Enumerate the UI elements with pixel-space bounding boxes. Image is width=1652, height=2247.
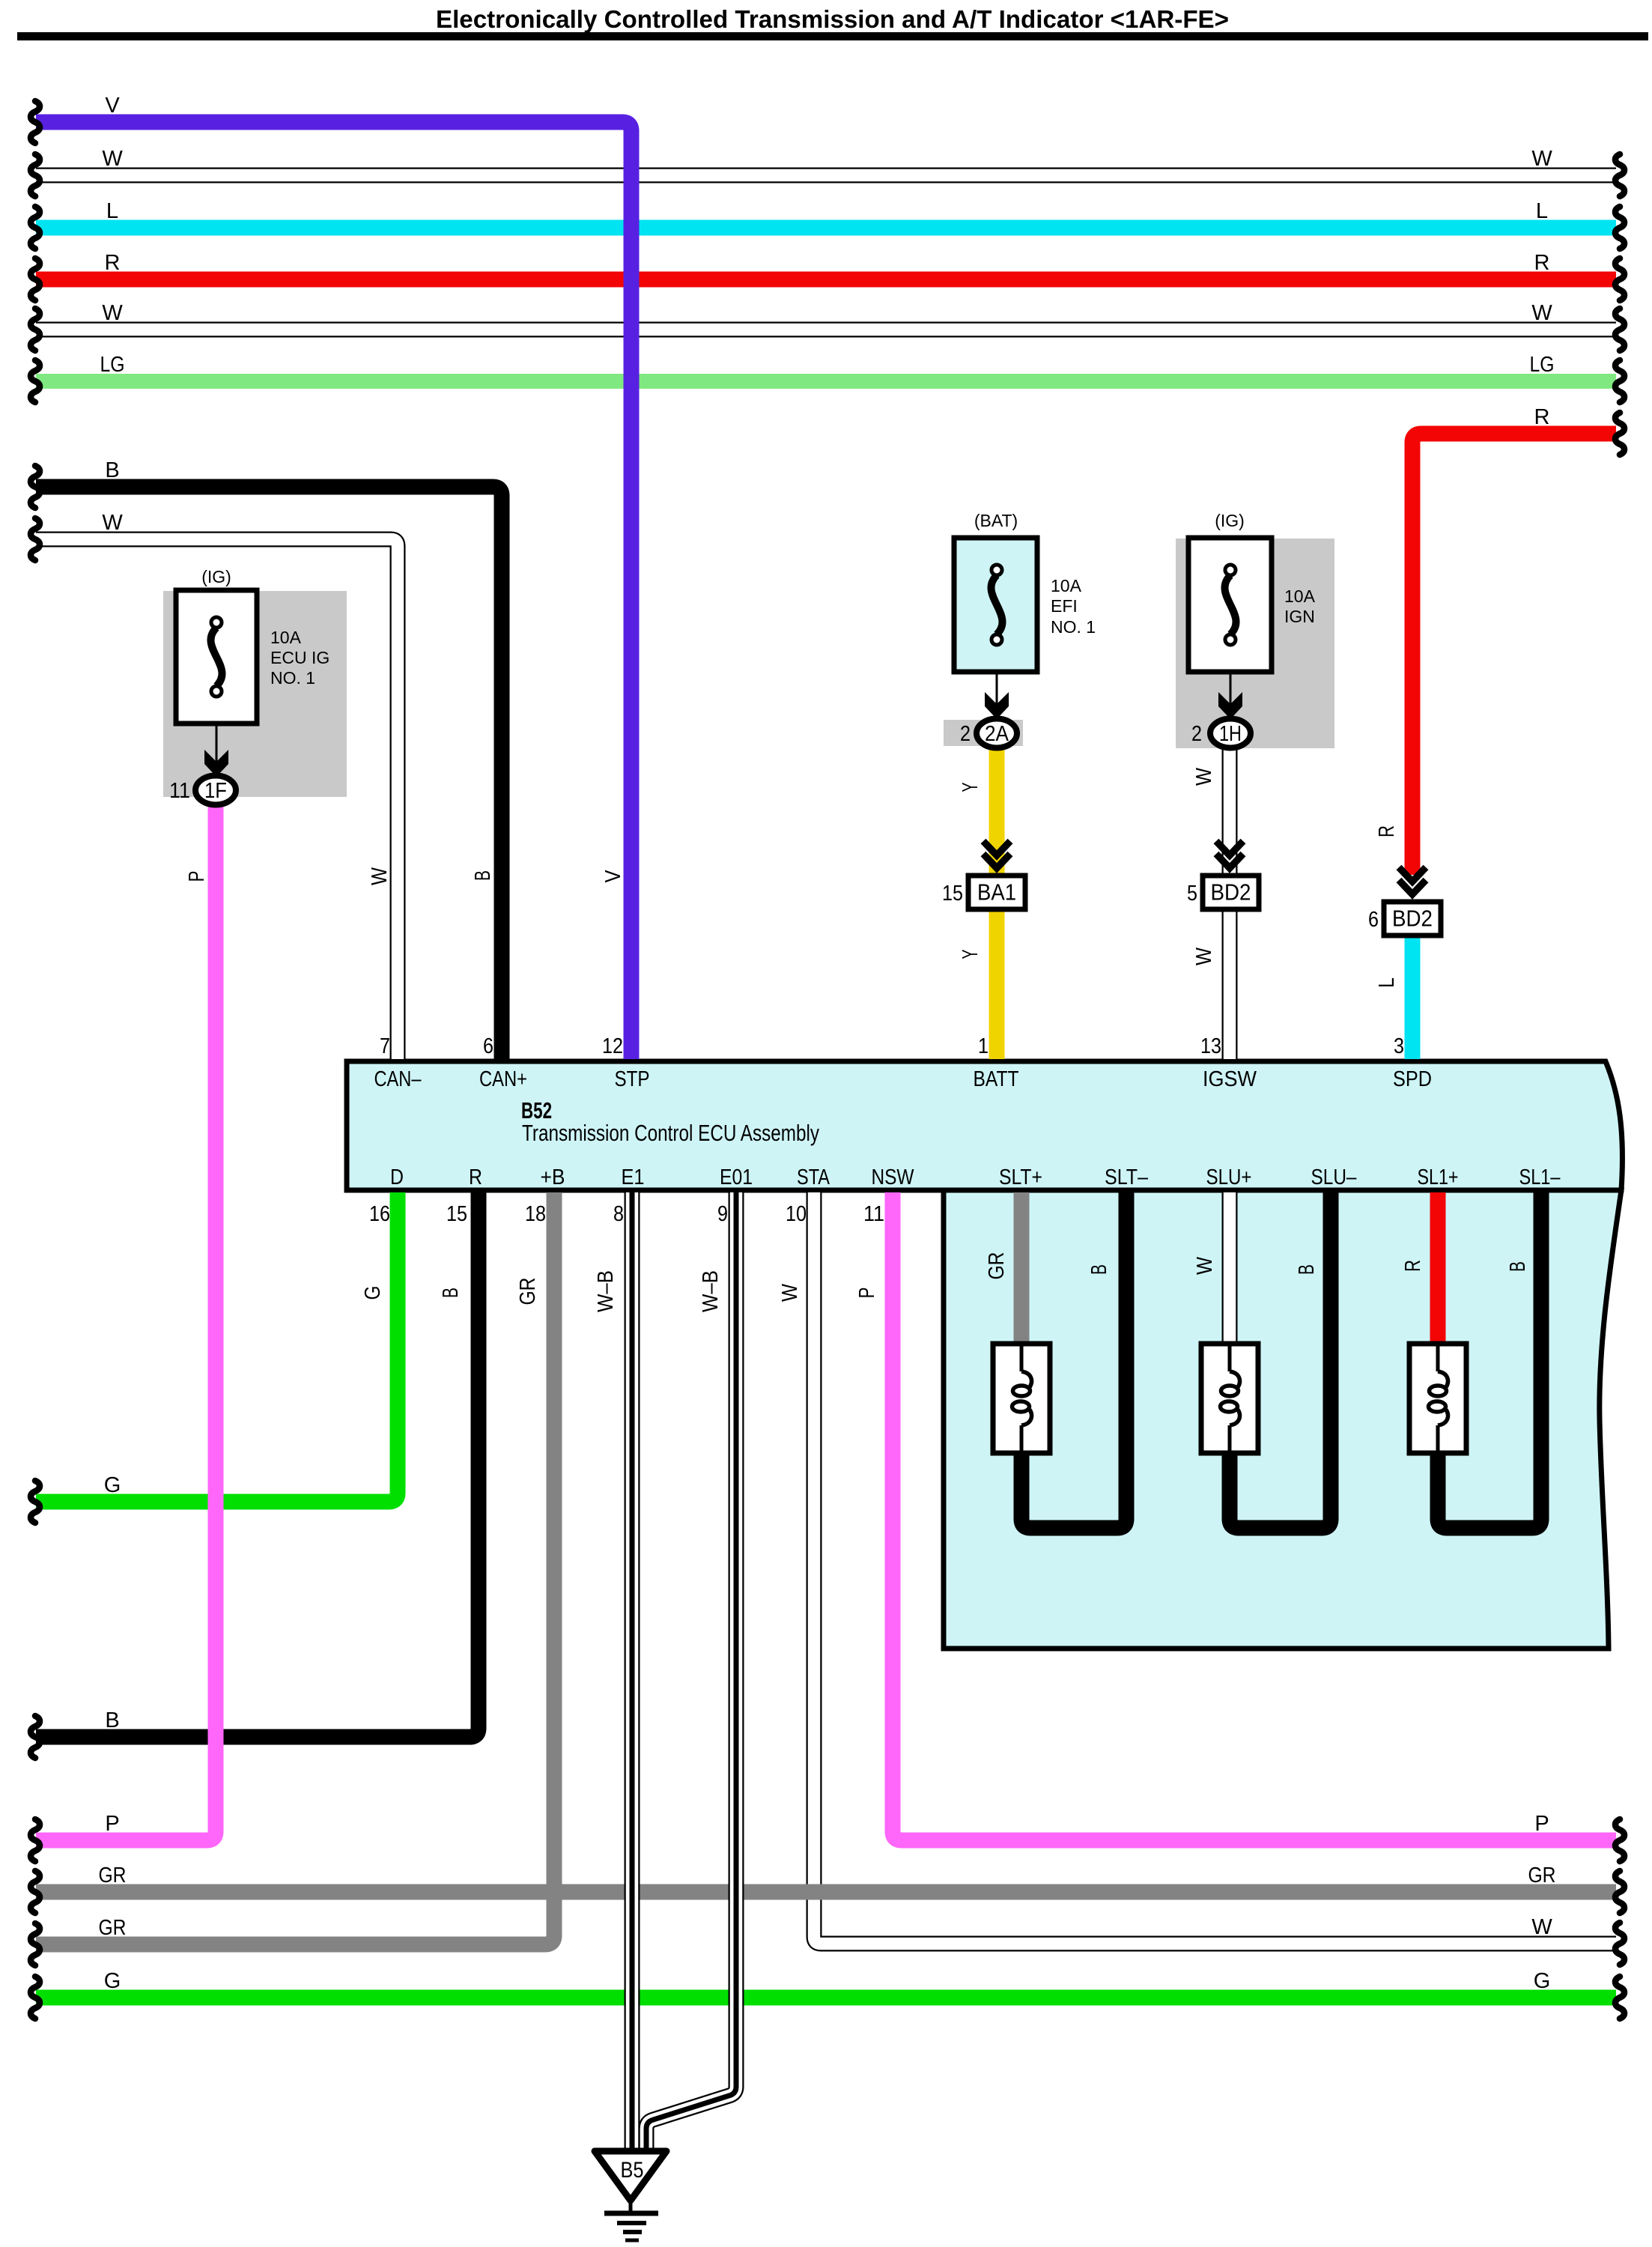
svg-text:W: W <box>1192 947 1216 965</box>
svg-text:(IG): (IG) <box>201 567 231 586</box>
svg-text:R: R <box>1401 1260 1425 1272</box>
svg-text:B: B <box>1087 1264 1111 1275</box>
svg-text:EFI: EFI <box>1051 596 1078 616</box>
svg-text:(BAT): (BAT) <box>974 511 1018 530</box>
svg-text:GR: GR <box>516 1278 540 1306</box>
svg-text:GR: GR <box>99 1864 127 1887</box>
svg-text:G: G <box>104 1473 121 1497</box>
svg-text:W: W <box>1531 301 1552 325</box>
svg-text:IGN: IGN <box>1284 607 1315 626</box>
svg-text:7: 7 <box>380 1034 390 1058</box>
svg-text:10A: 10A <box>1051 576 1082 595</box>
svg-text:R: R <box>105 251 121 275</box>
svg-text:G: G <box>361 1286 385 1300</box>
svg-text:5: 5 <box>1187 882 1197 906</box>
svg-text:L: L <box>1536 199 1548 223</box>
svg-text:2A: 2A <box>985 722 1009 746</box>
svg-text:1H: 1H <box>1219 722 1242 746</box>
svg-text:G: G <box>1534 1969 1551 1993</box>
svg-text:LG: LG <box>1530 353 1555 377</box>
svg-text:R: R <box>469 1165 482 1189</box>
svg-text:+B: +B <box>541 1165 565 1189</box>
svg-text:E1: E1 <box>622 1165 645 1189</box>
svg-text:NO. 1: NO. 1 <box>1051 617 1096 637</box>
svg-text:B: B <box>105 458 119 482</box>
svg-text:W: W <box>102 301 123 325</box>
svg-text:15: 15 <box>446 1202 467 1226</box>
svg-text:2: 2 <box>1191 722 1202 746</box>
svg-text:W: W <box>1192 767 1216 786</box>
svg-text:LG: LG <box>100 353 125 377</box>
svg-text:10A: 10A <box>270 628 302 647</box>
svg-text:(IG): (IG) <box>1215 511 1245 530</box>
svg-text:10A: 10A <box>1284 586 1316 606</box>
svg-text:13: 13 <box>1200 1034 1221 1058</box>
svg-text:P: P <box>855 1288 879 1299</box>
svg-text:BD2: BD2 <box>1392 906 1433 932</box>
svg-text:G: G <box>104 1969 121 1993</box>
svg-text:B: B <box>439 1288 463 1298</box>
svg-text:STP: STP <box>615 1067 650 1091</box>
svg-text:STA: STA <box>797 1165 830 1189</box>
svg-text:16: 16 <box>369 1202 390 1226</box>
svg-text:8: 8 <box>613 1202 624 1226</box>
svg-text:SL1+: SL1+ <box>1418 1165 1459 1189</box>
svg-text:W: W <box>1193 1256 1217 1275</box>
svg-text:W: W <box>368 867 392 885</box>
svg-text:P: P <box>105 1812 119 1836</box>
svg-text:GR: GR <box>1528 1864 1556 1887</box>
svg-text:BD2: BD2 <box>1211 879 1251 906</box>
svg-text:BATT: BATT <box>974 1067 1019 1091</box>
svg-text:Electronically Controlled Tran: Electronically Controlled Transmission a… <box>436 5 1229 33</box>
svg-text:SLU+: SLU+ <box>1206 1165 1252 1189</box>
svg-text:L: L <box>106 199 118 223</box>
svg-text:D: D <box>390 1165 404 1189</box>
svg-text:15: 15 <box>942 882 963 906</box>
svg-text:CAN+: CAN+ <box>479 1067 527 1091</box>
svg-text:GR: GR <box>99 1916 127 1940</box>
svg-text:11: 11 <box>863 1202 884 1226</box>
svg-text:B5: B5 <box>621 2158 644 2183</box>
svg-text:E01: E01 <box>720 1165 753 1189</box>
svg-text:SLT–: SLT– <box>1105 1165 1149 1189</box>
svg-text:GR: GR <box>985 1252 1009 1280</box>
svg-text:NO. 1: NO. 1 <box>270 668 315 688</box>
svg-text:B: B <box>1506 1261 1530 1272</box>
svg-text:9: 9 <box>717 1202 728 1226</box>
svg-text:BA1: BA1 <box>977 879 1016 906</box>
svg-text:W: W <box>1531 1915 1552 1939</box>
svg-text:W: W <box>778 1283 802 1302</box>
svg-text:1F: 1F <box>204 779 227 803</box>
svg-text:W–B: W–B <box>699 1270 723 1312</box>
svg-text:Transmission Control ECU Assem: Transmission Control ECU Assembly <box>522 1120 819 1146</box>
svg-text:SLU–: SLU– <box>1311 1165 1358 1189</box>
svg-text:2: 2 <box>960 722 971 746</box>
svg-text:P: P <box>1534 1812 1549 1836</box>
svg-text:SLT+: SLT+ <box>999 1165 1042 1189</box>
svg-text:W: W <box>102 147 123 171</box>
svg-text:R: R <box>1534 251 1550 275</box>
svg-text:1: 1 <box>978 1034 989 1058</box>
svg-text:W: W <box>102 511 123 535</box>
svg-text:CAN–: CAN– <box>374 1067 422 1091</box>
svg-text:V: V <box>601 870 625 883</box>
svg-text:IGSW: IGSW <box>1203 1067 1257 1091</box>
svg-text:SPD: SPD <box>1393 1067 1432 1091</box>
svg-text:R: R <box>1375 825 1399 837</box>
svg-text:6: 6 <box>483 1034 494 1058</box>
svg-text:B: B <box>1295 1264 1319 1275</box>
svg-text:B: B <box>471 870 495 881</box>
svg-text:V: V <box>105 94 120 118</box>
svg-text:6: 6 <box>1368 908 1379 932</box>
svg-text:ECU IG: ECU IG <box>270 648 330 667</box>
svg-text:3: 3 <box>1394 1034 1404 1058</box>
svg-text:W: W <box>1531 147 1552 171</box>
svg-text:12: 12 <box>602 1034 623 1058</box>
svg-text:W–B: W–B <box>594 1270 618 1312</box>
svg-text:P: P <box>185 871 209 882</box>
svg-text:L: L <box>1375 977 1399 988</box>
svg-text:Y: Y <box>959 783 983 792</box>
svg-text:Y: Y <box>959 950 983 959</box>
svg-text:R: R <box>1534 405 1550 429</box>
svg-text:SL1–: SL1– <box>1519 1165 1561 1189</box>
svg-text:B: B <box>105 1708 119 1732</box>
svg-text:NSW: NSW <box>872 1165 915 1189</box>
svg-text:10: 10 <box>786 1202 807 1226</box>
svg-text:11: 11 <box>169 779 190 803</box>
svg-text:18: 18 <box>525 1202 546 1226</box>
